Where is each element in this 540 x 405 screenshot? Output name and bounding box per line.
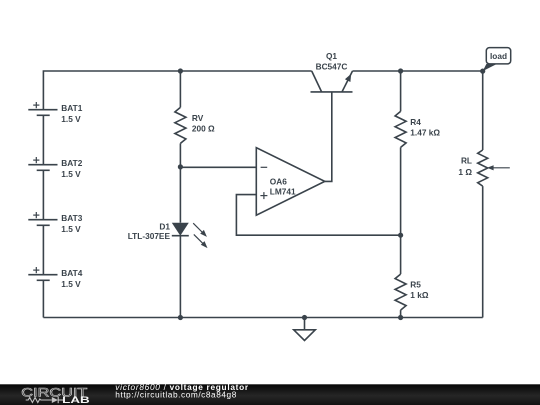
battery BAT2 [28,157,82,179]
svg-text:BAT4: BAT4 [61,268,82,278]
wire RV top lead [179,71,181,107]
svg-text:BC547C: BC547C [316,61,348,71]
resistor R4 [395,111,440,147]
battery BAT4 [28,267,82,289]
svg-text:R5: R5 [410,280,421,290]
node load flag [483,48,511,72]
junction top rail / load [480,69,485,74]
junction bottom rail / D1 [178,315,183,320]
wire bottom rail [43,317,482,319]
svg-text:LTL-307EE: LTL-307EE [128,231,171,241]
svg-text:OA6: OA6 [270,176,287,186]
wire inverting input (node to op-amp -) [180,166,256,168]
wire op-amp output to Q1 base [325,92,332,181]
wire R5 bottom to bottom rail [400,310,402,317]
svg-text:BAT1: BAT1 [61,103,82,113]
svg-text:load: load [490,51,507,61]
wire top rail left (battery+ to Q1 collector) [43,71,311,110]
svg-text:http://circuitlab.com/c8a84g8: http://circuitlab.com/c8a84g8 [115,389,237,399]
svg-text:RV: RV [192,113,204,123]
battery BAT3 [28,212,82,234]
ground [294,318,316,341]
battery BAT1 [28,102,82,124]
wire RL top lead [482,71,484,150]
svg-text:200 Ω: 200 Ω [192,123,215,133]
wire R4 bottom to feedback node [400,147,402,235]
junction RV / D1 / op-amp inverting [178,164,183,169]
wire R4 top lead [400,71,402,111]
svg-text:LAB: LAB [62,395,90,405]
svg-text:D1: D1 [159,221,170,231]
junction bottom rail / ground [302,315,307,320]
resistor R5 [395,274,429,310]
junction top rail / RV [178,68,183,73]
svg-text:1.47 kΩ: 1.47 kΩ [410,127,440,137]
wire RL bottom to bottom rail [482,186,484,317]
wire D1 cathode to bottom rail [179,236,181,318]
wire node to D1 anode [179,167,181,223]
svg-text:1 Ω: 1 Ω [458,167,472,177]
svg-text:Q1: Q1 [326,51,337,61]
wire battery column segment BAT1-BAT2 [42,115,44,164]
svg-text:RL: RL [461,156,472,166]
CircuitLab logo icon (resistor-diode) [26,397,63,403]
transistor Q1 BC547C [311,51,353,92]
junction top rail / R4 [398,68,403,73]
wire battery column to bottom rail [42,280,44,317]
svg-text:1.5 V: 1.5 V [61,224,81,234]
svg-text:1.5 V: 1.5 V [61,279,81,289]
resistor RV [175,107,215,143]
svg-text:1.5 V: 1.5 V [61,169,81,179]
svg-text:BAT3: BAT3 [61,213,82,223]
svg-text:LM741: LM741 [270,187,296,197]
wire non-inverting input (op-amp + to feedback) [236,195,400,236]
op-amp U1 OA6 LM741 [256,148,325,216]
svg-text:R4: R4 [410,117,421,127]
wire feedback node to R5 top [400,235,402,274]
junction R4 / R5 / feedback [398,233,403,238]
wire top rail right (Q1 emitter to load corner) [353,70,483,72]
svg-text:1.5 V: 1.5 V [61,114,81,124]
LED D1 [128,221,208,248]
wire RV bottom to node [179,143,181,167]
svg-text:1 kΩ: 1 kΩ [410,290,429,300]
junction bottom rail / R5 [398,315,403,320]
wire battery column segment BAT3-BAT4 [42,225,44,274]
wire battery column segment BAT2-BAT3 [42,170,44,219]
svg-text:BAT2: BAT2 [61,158,82,168]
rheostat RL [458,150,509,186]
